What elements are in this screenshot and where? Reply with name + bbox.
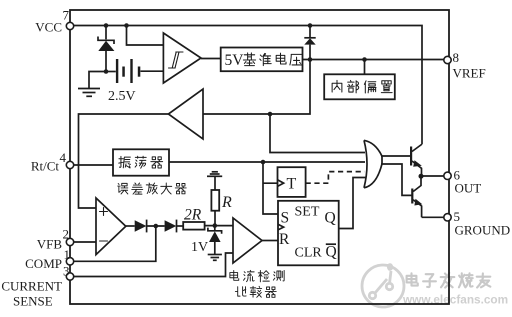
pin 7 VCC — [35, 8, 73, 35]
svg-text:Q: Q — [325, 210, 336, 227]
label 2.5V — [108, 89, 136, 104]
transistor Q2 lower — [411, 176, 422, 217]
wire OR output to Q1 base — [381, 155, 411, 157]
wire error amp output — [126, 225, 135, 227]
diode D2 to VCC rail — [304, 26, 315, 60]
wire J2 to schmitt upper input — [127, 26, 164, 46]
label 1V — [191, 240, 208, 255]
ground GND2 — [208, 255, 222, 261]
label 2R — [184, 207, 202, 224]
battery B1 2.5V — [106, 59, 163, 83]
svg-text:3: 3 — [63, 264, 70, 279]
svg-text:4: 4 — [60, 150, 67, 165]
svg-text:S: S — [281, 210, 290, 227]
svg-text:VREF: VREF — [453, 66, 486, 81]
pin 8 VREF — [444, 50, 486, 81]
svg-text:1: 1 — [64, 247, 71, 262]
pin 3 CURRENT SENSE — [1, 264, 73, 309]
node J9 emitter junction — [419, 174, 424, 179]
wire J8 down to S input with T branch — [263, 162, 278, 214]
diode D4 — [165, 220, 177, 233]
svg-text:Rt/Ct: Rt/Ct — [31, 159, 60, 174]
op-amp U1 schmitt comparator — [163, 33, 201, 83]
svg-text:VFB: VFB — [37, 237, 63, 252]
wire D3 to D4 — [147, 225, 165, 227]
node J1 on VCC rail — [104, 23, 109, 28]
label error amplifier (Chinese) — [118, 183, 187, 194]
svg-text:5V: 5V — [225, 52, 245, 69]
wire J4 to ground riser — [89, 72, 106, 89]
svg-text:OUT: OUT — [455, 181, 482, 196]
svg-text:CLR: CLR — [295, 246, 323, 261]
wire U1 output to 5V box — [201, 58, 221, 60]
pin 6 OUT — [444, 168, 481, 196]
watermark logo — [362, 263, 404, 307]
node J2 on VCC rail — [124, 23, 129, 28]
node J8 — [261, 160, 266, 165]
wire latch Q output up to OR input 4 — [339, 178, 366, 229]
node J6 bias stem — [362, 57, 367, 62]
wire U2 output down to error amp + input — [79, 114, 169, 208]
label current detect comparator (Chinese) — [230, 270, 284, 297]
svg-text:SENSE: SENSE — [13, 294, 53, 309]
block 5V reference box — [221, 48, 303, 72]
node J10 COMP junction — [154, 224, 159, 229]
latch SR box — [278, 201, 339, 265]
node J11 — [213, 223, 218, 228]
pin 1 COMP — [25, 247, 74, 271]
svg-text:T: T — [287, 176, 297, 193]
node J5 VREF — [308, 57, 313, 62]
diode D3 — [135, 220, 147, 233]
op-amp U2 buffer (points left) — [168, 89, 203, 139]
svg-text:2R: 2R — [184, 207, 202, 224]
wire pin4 to oscillator — [70, 164, 113, 166]
wire VREF down to buffer input — [203, 60, 310, 115]
block internal bias box — [324, 74, 395, 99]
OR gate U4 — [364, 140, 382, 188]
svg-text:GROUND: GROUND — [455, 223, 511, 238]
svg-text:2.5V: 2.5V — [108, 89, 136, 104]
pin 4 Rt/Ct — [31, 150, 74, 174]
zener DZ2 1V — [208, 226, 222, 254]
op-amp U5 error amplifier — [96, 198, 126, 255]
svg-text:COMP: COMP — [25, 256, 62, 271]
svg-text:CURRENT: CURRENT — [1, 279, 62, 294]
wire to pin 6 — [421, 175, 444, 177]
wire COMP branch — [70, 226, 156, 261]
wire D4 to resistor 2R — [177, 225, 184, 227]
node J7 buffer line — [268, 112, 273, 117]
wire pin2 VFB to error amp - input — [70, 241, 96, 243]
supply tick above R — [207, 172, 222, 190]
wire VREF line to pin 8 — [303, 59, 445, 61]
svg-text:8: 8 — [453, 50, 460, 65]
wire dashed T output to OR input 3 — [306, 172, 365, 184]
svg-text:1V: 1V — [191, 240, 208, 255]
node J4 battery/zener junction — [104, 69, 109, 74]
wire J7 down to OR input 1 — [270, 114, 365, 153]
ground GND1 — [78, 89, 100, 97]
wire OR output to Q2 base — [381, 164, 412, 195]
zener diode DZ1 — [98, 37, 114, 72]
transistor Q1 upper — [410, 144, 422, 176]
node J3 on VCC rail above diode D2 — [308, 23, 313, 28]
resistor R — [211, 190, 219, 211]
label R — [221, 194, 232, 211]
svg-text:Q: Q — [326, 244, 337, 261]
wire pin3 current sense to comparator — [70, 253, 233, 277]
svg-text:VCC: VCC — [35, 20, 62, 35]
wire VCC to zener DZ1 — [105, 26, 107, 40]
wire oscillator output to OR input 2 — [169, 161, 365, 163]
svg-text:2: 2 — [63, 227, 70, 242]
svg-text:R: R — [279, 231, 290, 248]
wire 2R to comparator — [205, 225, 233, 227]
wire bias stem — [364, 60, 366, 75]
IC boundary box — [70, 10, 449, 304]
svg-text:7: 7 — [63, 8, 70, 23]
block oscillator box — [113, 149, 169, 175]
op-amp U3 current sense comparator — [233, 218, 262, 263]
pin 5 GROUND — [444, 209, 510, 238]
svg-text:SET: SET — [295, 205, 320, 220]
flip-flop T box — [278, 167, 306, 197]
watermark text — [407, 273, 491, 288]
wire comparator output to R input — [262, 240, 278, 242]
wire to pin 5 — [422, 216, 445, 218]
svg-text:R: R — [221, 194, 232, 211]
wire VCC rail from pin7 to right descent — [70, 26, 422, 145]
wire R to node — [214, 211, 216, 226]
resistor 2R — [183, 222, 204, 230]
pin 2 VFB — [37, 227, 74, 252]
